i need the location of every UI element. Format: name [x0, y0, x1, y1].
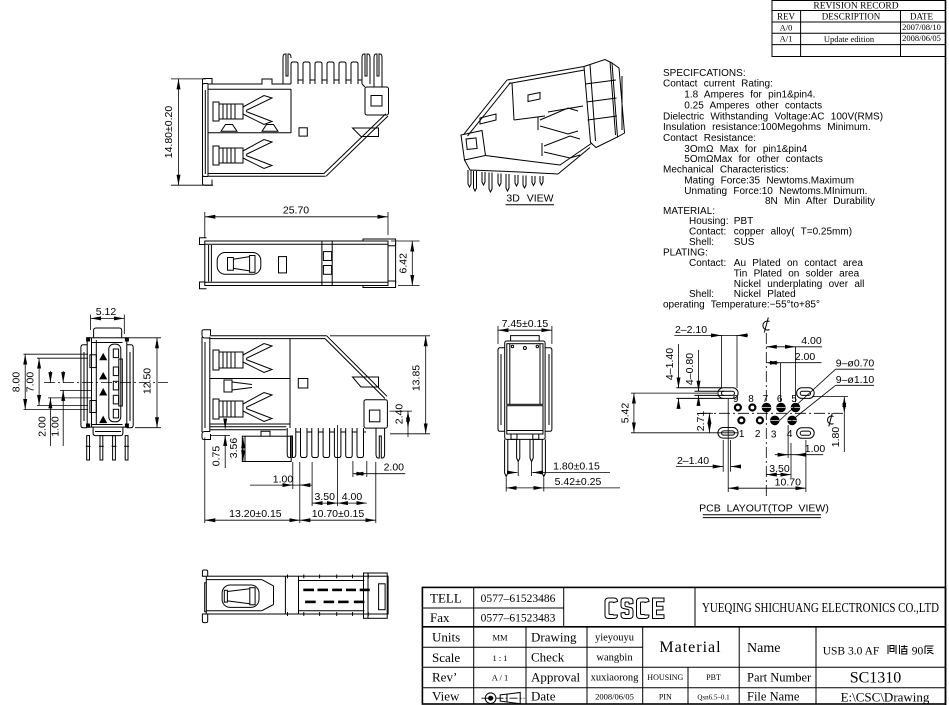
svg-text:13.20±0.15: 13.20±0.15	[229, 508, 282, 520]
dim 2.00	[766, 363, 821, 402]
edge ticks	[288, 575, 369, 616]
internal structure lines	[512, 83, 514, 121]
pins	[86, 436, 129, 460]
svg-text:3.50: 3.50	[769, 463, 790, 475]
svg-text:Material: Material	[659, 639, 721, 656]
right cap	[364, 573, 388, 618]
svg-text:6.42: 6.42	[397, 253, 409, 274]
svg-text:PLATING:: PLATING:	[663, 247, 708, 258]
svg-text:10.70: 10.70	[775, 477, 801, 489]
svg-text:A / 1: A / 1	[492, 673, 509, 683]
svg-text:5: 5	[791, 394, 797, 405]
dim 5.42±0.25	[506, 478, 620, 492]
dim 13.85	[330, 336, 430, 434]
right square block	[364, 400, 387, 428]
svg-text:4.00: 4.00	[801, 335, 822, 347]
svg-text:YUEQING SHICHUANG ELECTRONICS: YUEQING SHICHUANG ELECTRONICS CO.,LTD	[702, 600, 939, 615]
svg-text:14.80±0.20: 14.80±0.20	[163, 106, 175, 159]
svg-text:A/0: A/0	[780, 22, 793, 32]
svg-text:2–2.10: 2–2.10	[675, 324, 707, 336]
svg-text:DESCRIPTION: DESCRIPTION	[822, 11, 881, 21]
name: USB 3.0 AF (CJK approx)	[823, 646, 924, 658]
svg-text:4–1.40: 4–1.40	[664, 348, 676, 380]
svg-text:Nickel Plated: Nickel Plated	[734, 289, 796, 300]
svg-text:Contact Resistance:: Contact Resistance:	[663, 133, 756, 144]
svg-text:Part Number: Part Number	[747, 671, 812, 685]
svg-text:8.00: 8.00	[11, 372, 23, 393]
inner shell	[507, 344, 543, 405]
dim 4.00	[766, 347, 822, 402]
left block with hole	[461, 131, 486, 161]
pins	[505, 439, 546, 476]
pad row bottom: 1 2 3 4	[738, 416, 796, 425]
dim 4-0.80	[698, 350, 700, 404]
svg-text:2.00: 2.00	[37, 416, 49, 437]
bottom comb teeth	[287, 428, 384, 458]
svg-text:Shell:: Shell:	[689, 237, 714, 248]
dim 7.45±0.15	[498, 326, 552, 344]
body outline	[208, 54, 388, 176]
centerlines	[44, 382, 168, 384]
svg-text:MM: MM	[492, 633, 508, 643]
left flange	[203, 79, 213, 186]
svg-text:Mating Force:35 Newtoms.Maxi: Mating Force:35 Newtoms.Maximum	[684, 175, 854, 186]
dim 2.40	[390, 411, 413, 437]
svg-text:SUS: SUS	[734, 237, 755, 248]
keyhole latch feature	[217, 253, 261, 275]
revision record table	[772, 1, 946, 57]
top edge double	[507, 67, 584, 81]
svg-text:2008/06/05: 2008/06/05	[902, 33, 941, 43]
svg-text:0.25 Amperes other contacts: 0.25 Amperes other contacts	[684, 100, 822, 111]
title block text	[430, 591, 939, 705]
svg-text:25.70: 25.70	[283, 204, 309, 216]
view A: side elevation (top-left)	[163, 54, 389, 185]
svg-text:SC1310: SC1310	[850, 670, 902, 687]
slot pad upper-left with extensions	[676, 388, 738, 399]
svg-text:4.00: 4.00	[342, 491, 363, 503]
svg-text:PBT: PBT	[706, 673, 721, 682]
dim 2.00	[353, 461, 405, 477]
top cap	[94, 328, 122, 338]
svg-text:4–0.80: 4–0.80	[684, 353, 696, 385]
dims 3.50 / 4.00	[312, 425, 367, 506]
right square block	[362, 84, 389, 115]
dim 3.56	[242, 438, 244, 461]
view F: rear/end view (vertical)	[498, 318, 620, 492]
body outline	[210, 336, 387, 430]
body outline	[81, 338, 133, 436]
trapezoid seats	[221, 125, 237, 132]
chamfer transition	[262, 576, 299, 614]
svg-text:5.12: 5.12	[96, 306, 117, 318]
dim 1.00	[775, 425, 823, 458]
view C: top view with 25.70 dim	[200, 204, 420, 288]
svg-text:1.8 Amperes for pin1&pin4.: 1.8 Amperes for pin1&pin4.	[684, 90, 815, 101]
svg-text:Dielectric Withstanding Volt: Dielectric Withstanding Voltage:AC 100V(…	[663, 111, 883, 122]
svg-text:2.40: 2.40	[393, 404, 405, 425]
svg-text:Check: Check	[531, 650, 565, 665]
svg-text:Insulation resistance:100Mego: Insulation resistance:100Megohms Minimum…	[663, 122, 871, 133]
svg-text:8: 8	[748, 394, 754, 405]
shell inner	[210, 339, 290, 428]
diagonal cut (double)	[326, 116, 388, 176]
shell inner lines	[208, 89, 291, 133]
svg-text:1: 1	[739, 429, 745, 440]
view D: front view (left)	[11, 306, 169, 460]
slot pad lower-left	[718, 428, 738, 439]
svg-text:wangbin: wangbin	[596, 653, 633, 664]
svg-text:13.85: 13.85	[411, 365, 423, 391]
lower housing block	[507, 406, 543, 440]
svg-text:9–ø1.10: 9–ø1.10	[836, 374, 875, 386]
svg-text:yieyouyu: yieyouyu	[595, 633, 635, 644]
centerline symbol right	[828, 413, 834, 427]
svg-text:2.00: 2.00	[384, 462, 405, 474]
svg-text:Fax: Fax	[430, 610, 450, 625]
dim 1.00	[250, 462, 312, 489]
svg-text:0577–61523483: 0577–61523483	[481, 613, 556, 625]
vertical centerline	[765, 333, 767, 497]
fork pins right of comb	[362, 54, 370, 84]
svg-text:Date: Date	[531, 689, 556, 704]
dim 2-2.10	[674, 335, 748, 388]
svg-text:3.50: 3.50	[314, 491, 335, 503]
svg-text:REVISION RECORD: REVISION RECORD	[813, 1, 898, 11]
svg-text:0577–61523486: 0577–61523486	[481, 593, 556, 605]
svg-text:Approval: Approval	[531, 670, 580, 685]
svg-text:Mechanical Characteristics:: Mechanical Characteristics:	[663, 165, 789, 176]
svg-text:3: 3	[771, 429, 777, 440]
svg-text:USB 3.0 AF: USB 3.0 AF	[823, 646, 880, 658]
dim 5.12	[91, 315, 125, 335]
dim 1.80 right	[812, 397, 848, 452]
svg-text:A/1: A/1	[780, 34, 793, 44]
dim 6.42	[391, 241, 420, 286]
small vent on cut	[480, 114, 496, 124]
dims 13.20 / 10.70	[205, 438, 376, 524]
leader 9-Ø1.10	[792, 385, 875, 420]
dim 0.75	[210, 421, 230, 468]
dim 10.70	[728, 399, 806, 492]
right mating face stack	[584, 60, 618, 148]
svg-text:SPECIFCATIONS:: SPECIFCATIONS:	[663, 68, 746, 79]
svg-text:xuxiaorong: xuxiaorong	[591, 673, 640, 684]
top comb teeth	[291, 62, 298, 84]
slot pad upper-right	[797, 388, 815, 399]
body outline	[498, 341, 552, 439]
svg-text:3.56: 3.56	[228, 438, 240, 459]
svg-text:Units: Units	[432, 630, 460, 645]
dim 4-1.40	[678, 344, 680, 407]
slot pad lower-right	[797, 428, 815, 439]
left cap hooks	[200, 238, 212, 289]
body outer	[205, 241, 388, 286]
projection view symbol	[482, 693, 525, 704]
svg-text:Shell:: Shell:	[689, 289, 714, 300]
svg-text:90: 90	[912, 646, 924, 658]
dim 25.70	[205, 212, 388, 238]
svg-text:Qsn6.5–0.1: Qsn6.5–0.1	[697, 694, 730, 702]
pins below	[468, 170, 471, 187]
dim 5.42 left	[631, 393, 738, 433]
dim 2.71	[703, 413, 713, 433]
svg-text:6: 6	[777, 394, 783, 405]
svg-text:1.00: 1.00	[805, 443, 826, 455]
fork pins left of comb	[283, 54, 291, 84]
svg-text:2.00: 2.00	[795, 351, 816, 363]
page right border	[945, 0, 947, 705]
svg-text:Update edition: Update edition	[824, 34, 875, 44]
diagonal cut edge	[464, 80, 507, 134]
svg-text:9: 9	[733, 394, 739, 405]
dim 3.50	[766, 443, 791, 478]
svg-text:5.42±0.25: 5.42±0.25	[555, 476, 602, 488]
svg-text:3D VIEW: 3D VIEW	[506, 193, 553, 205]
svg-text:Housing:: Housing:	[689, 216, 728, 227]
contact 2 (lower)	[213, 140, 272, 169]
svg-text:operating Temperature:−55°to+: operating Temperature:−55°to+85°	[663, 300, 820, 311]
svg-text:7.45±0.15: 7.45±0.15	[502, 318, 549, 330]
svg-text:PBT: PBT	[734, 216, 753, 227]
specifications text	[663, 68, 883, 311]
svg-text:Name: Name	[747, 641, 780, 656]
svg-text:1.80: 1.80	[830, 427, 842, 448]
inner contacts	[90, 349, 122, 423]
leader 9-Ø0.70	[780, 369, 875, 420]
svg-text:5.42: 5.42	[619, 403, 631, 424]
svg-text:1.00: 1.00	[50, 416, 62, 437]
svg-text:1.00: 1.00	[273, 473, 294, 485]
svg-text:2008/06/05: 2008/06/05	[595, 692, 634, 702]
contact 2 (lower)	[213, 393, 272, 422]
centerline symbol top	[763, 318, 770, 333]
svg-text:8N Min After Durability: 8N Min After Durability	[765, 196, 875, 207]
middle horn contact	[224, 380, 252, 392]
svg-text:2.71: 2.71	[695, 411, 707, 432]
small square hole	[299, 128, 307, 136]
svg-text:Contact:: Contact:	[689, 258, 726, 269]
contact 1 (upper)	[213, 344, 272, 373]
svg-text:7.00: 7.00	[25, 372, 37, 393]
left stack dims	[24, 354, 92, 446]
svg-text:2007/08/10: 2007/08/10	[902, 22, 941, 32]
svg-text:1.80±0.15: 1.80±0.15	[553, 460, 600, 472]
svg-text:2–1.40: 2–1.40	[677, 455, 709, 467]
CJK glyph approximations	[888, 645, 934, 654]
tab on diagonal	[353, 128, 379, 137]
svg-text:9–ø0.70: 9–ø0.70	[836, 358, 875, 370]
svg-text:REV: REV	[777, 11, 796, 21]
keyhole	[222, 585, 259, 607]
svg-text:PCB LAYOUT(TOP VIEW): PCB LAYOUT(TOP VIEW)	[699, 503, 829, 515]
svg-text:Contact current Rating:: Contact current Rating:	[663, 79, 773, 90]
svg-text:12.50: 12.50	[142, 368, 154, 394]
svg-text:Rev’: Rev’	[432, 670, 457, 685]
bottom contour	[465, 148, 591, 175]
right latch section	[322, 241, 332, 286]
dim 14.80±0.20	[171, 79, 213, 185]
svg-text:PIN: PIN	[659, 693, 672, 702]
svg-text:0.75: 0.75	[211, 446, 223, 467]
base housing block	[242, 431, 291, 461]
svg-text:7: 7	[763, 394, 769, 405]
svg-text:TELL: TELL	[430, 591, 462, 606]
pad row top: 9 8 7 6 5	[735, 403, 800, 412]
middle bar	[279, 257, 287, 273]
svg-text:Scale: Scale	[432, 650, 460, 665]
ext lines 2-1.40	[676, 440, 739, 472]
small square hole	[298, 379, 308, 389]
svg-text:View: View	[432, 689, 460, 704]
svg-text:File Name: File Name	[747, 690, 800, 704]
right cap	[363, 239, 396, 288]
svg-text:10.70±0.15: 10.70±0.15	[312, 508, 365, 520]
svg-text:Au Plated on contact area: Au Plated on contact area	[734, 258, 864, 269]
left flange	[202, 330, 211, 440]
view B: 3D VIEW isometric	[461, 60, 625, 193]
title block lines	[422, 587, 945, 704]
dim 1.80±0.15	[509, 462, 610, 476]
horizontal centerline	[700, 412, 843, 414]
view H: bottom view	[202, 570, 388, 623]
svg-text:DATE: DATE	[910, 11, 933, 21]
svg-text:HOUSING: HOUSING	[647, 673, 683, 682]
svg-text:Drawing: Drawing	[531, 630, 577, 645]
view E: main side view with dims	[202, 330, 430, 523]
CSCE logo	[605, 598, 664, 619]
svg-text:Tin Plated on solder area: Tin Plated on solder area	[734, 268, 860, 279]
svg-text:1 : 1: 1 : 1	[492, 653, 507, 663]
svg-text:E:\CSC\Drawing: E:\CSC\Drawing	[841, 690, 930, 705]
dashed slots	[303, 589, 369, 604]
top tab	[511, 336, 540, 341]
tab on diagonal	[353, 377, 379, 387]
svg-text:5OmΩMax for other contacts: 5OmΩMax for other contacts	[684, 154, 823, 165]
view G: PCB layout (top view)	[619, 318, 874, 518]
contact forks	[540, 108, 578, 120]
dim 12.50	[128, 338, 161, 428]
contact 1 (upper)	[213, 96, 272, 125]
svg-text:2: 2	[755, 429, 761, 440]
